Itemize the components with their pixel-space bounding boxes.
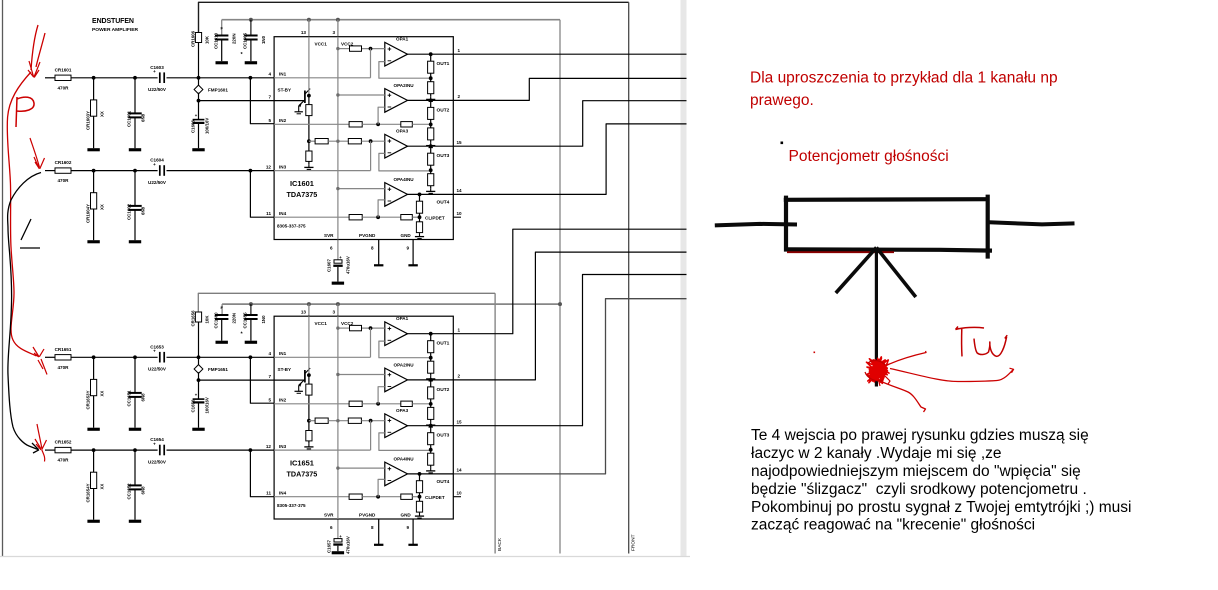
ground [192,428,204,431]
resistor IN2 input [349,122,362,127]
resistor OUT4 lower [419,217,421,222]
resistor bias R1 [308,375,310,384]
resistor OUT3 upper [430,146,432,153]
svg-text:3: 3 [332,30,335,35]
svg-text:7: 7 [268,374,271,379]
svg-text:OUT1: OUT1 [437,341,450,347]
annotation black curve [8,173,41,450]
svg-text:C1656: C1656 [190,399,195,412]
svg-text:220N: 220N [232,313,237,324]
svg-text:IN3: IN3 [279,164,287,169]
wire IN2 row internal [274,403,349,405]
svg-text:Dla uproszczenia to przykład d: Dla uproszczenia to przykład dla 1 kanał… [750,70,1058,87]
op-amp OPA3 (IC1651) [385,414,408,438]
wire OUT1 bottom to connector [453,229,686,334]
wire pin9 GND [412,240,414,266]
svg-text:OUT4: OUT4 [437,200,450,206]
node OPA4 minus [376,495,380,499]
svg-text:CR1602: CR1602 [55,160,72,165]
svg-text:Te 4 wejscia po prawej rysunku: Te 4 wejscia po prawej rysunku gdzies mu… [751,427,1089,444]
ground [129,520,141,523]
svg-text:8305-337-375: 8305-337-375 [277,224,306,229]
svg-text:1: 1 [458,327,461,332]
ground [129,428,141,431]
wire output OPA4INU [408,193,454,195]
svg-text:2: 2 [458,94,461,99]
svg-text:470R: 470R [58,178,70,183]
wire input row 1 (CR1601) [45,77,55,79]
resistor bias OPA1 [350,46,362,51]
svg-text:1: 1 [458,48,461,53]
wire IN3-to-IN4 link [250,171,274,218]
scan left page edge [2,0,4,556]
node OPA1 plus [369,47,373,51]
ground [430,188,432,191]
resistor bias R2 [306,151,312,161]
svg-text:XX: XX [100,111,105,117]
wire FRONT vertical [628,2,630,553]
resistor CR1601 470R [55,75,71,80]
wire OUT1 to connector [453,53,686,55]
node row2-junctions [92,169,96,173]
svg-text:OUT1: OUT1 [437,61,450,67]
svg-text:SVR: SVR [324,513,334,518]
wire pin13 stub bottom [308,304,310,316]
wire pin3 stub [337,20,339,37]
resistor chain B [348,139,361,144]
svg-text:Potencjometr głośności: Potencjometr głośności [789,148,949,165]
potentiometer body left [784,196,788,252]
svg-text:XX: XX [100,204,105,210]
svg-text:15: 15 [457,419,463,424]
wire VCC rail2 bottom [222,303,560,305]
svg-text:+: + [153,162,156,167]
resistor OUT3 upper [430,426,432,433]
svg-text:11: 11 [266,211,271,216]
node OUT3 mid [429,448,433,452]
svg-text:7: 7 [268,94,271,99]
svg-text:SVR: SVR [324,233,334,238]
wire VCC1 rail [308,37,310,96]
resistor bias OPA1 [350,325,362,330]
svg-text:OUT3: OUT3 [437,433,450,439]
wire output OPA3 [408,425,454,427]
svg-text:CR1652: CR1652 [55,440,72,445]
node CLIPDET [418,495,422,499]
resistor CR1603Y XX (shunt) [93,78,95,100]
capacitor C1604 U22/50V (series) [159,165,161,176]
svg-text:łaczyc w 2 kanały .Wydaje mi s: łaczyc w 2 kanały .Wydaje mi się ,ze [751,445,1002,462]
node OPA2 minus [376,402,380,406]
potentiometer body top [784,197,988,202]
svg-text:CC1655: CC1655 [243,312,248,329]
svg-text:OPA1: OPA1 [396,37,409,42]
wire pin13 stub [308,20,310,37]
ground [430,96,432,99]
annotation letter P [16,97,34,127]
svg-text:VCC1: VCC1 [315,321,328,326]
svg-text:PVGND: PVGND [359,233,376,238]
wire VCC2 bias row OPA1 [338,327,350,329]
svg-text:U22/50V: U22/50V [148,180,167,185]
svg-text:CC1652: CC1652 [127,483,132,500]
resistor OUT4 lower [419,497,421,502]
node OUT2 mid [429,402,433,406]
svg-text:2: 2 [458,374,461,379]
node rail2 bottom taps [249,302,253,306]
IC box IC1651 TDA7375 [274,316,453,519]
svg-text:6: 6 [330,525,333,530]
capacitor C1607 470u16V [334,260,342,263]
svg-text:+: + [153,442,156,447]
svg-text:będzie "ślizgacz" czyli srodk: będzie "ślizgacz" czyli srodkowy potencj… [751,481,1087,498]
ground [245,61,257,64]
svg-text:OUT2: OUT2 [437,107,450,113]
svg-text:OPA4INU: OPA4INU [394,177,415,182]
wire IN4 row internal [274,496,349,498]
op-amp OPA2INU (IC1601) [385,89,408,113]
ground [308,164,310,167]
resistor OUT2 upper [430,100,432,107]
svg-text:470R: 470R [58,85,70,90]
node row1-junctions [92,76,96,80]
svg-text:IN3: IN3 [279,444,287,449]
ground [430,422,432,425]
node OUT1 mid [429,76,433,80]
wire OUT4 bottom to connector [453,299,686,474]
svg-text:C1603: C1603 [150,65,164,70]
svg-text:470R: 470R [58,365,70,370]
capacitor CC1601 6N8 (shunt) [134,78,136,114]
resistor IN4 input [349,215,362,220]
IC box IC1601 TDA7375 [274,37,453,240]
ground [245,341,257,344]
ground [87,520,99,523]
svg-text:C1607: C1607 [327,259,332,272]
op-amp OPA4INU (IC1651) [385,462,408,486]
wire OUT2 bottom to connector [453,252,686,380]
svg-text:3: 3 [332,310,335,315]
resistor CR1652 470R [55,447,71,452]
svg-text:IN1: IN1 [279,351,287,356]
wire output OPA4INU [408,473,454,475]
annotation red curve down-right [878,380,926,412]
wire input row 2 (CR1652) [45,449,55,451]
capacitor C1656 100/16V [193,398,205,400]
node OUT1 [429,52,433,56]
svg-text:CR1601: CR1601 [55,67,72,72]
svg-text:9: 9 [407,525,410,530]
wire pin10 CLIPDET stub [453,216,461,218]
resistor CR1654Y XX (shunt) [93,450,95,472]
ground [129,240,141,243]
svg-text:TDA7375: TDA7375 [287,190,318,199]
resistor OUT4 upper [419,474,421,481]
annotation red arrow mid [30,138,45,169]
svg-text:CR1654Y: CR1654Y [86,483,91,502]
node OUT1 mid [429,356,433,360]
wire pin7 row [199,379,275,381]
svg-text:470R: 470R [58,458,70,463]
node OPA2 minus [376,122,380,126]
wire VCC rail2 top [222,19,560,21]
annotation red blob scribble [867,357,890,383]
svg-text:VCC1: VCC1 [315,41,328,46]
svg-text:CC1601: CC1601 [127,110,132,127]
svg-text:OPA2INU: OPA2INU [394,83,415,88]
annotation tiny red dot [814,352,816,354]
svg-text:15: 15 [457,140,463,145]
resistor chain A [315,418,328,423]
svg-text:C1606: C1606 [190,120,195,133]
svg-text:CR1653Y: CR1653Y [86,390,91,409]
wire BACK vertical [494,293,496,553]
node bias chain [307,139,311,143]
svg-text:CLIPDET: CLIPDET [425,495,445,500]
svg-text:10: 10 [457,490,463,495]
svg-text:C1604: C1604 [150,158,164,163]
annotation red curve long-right [890,368,1014,381]
node OUT4 [418,472,422,476]
svg-text:10K: 10K [205,35,210,44]
svg-text:ENDSTUFEN: ENDSTUFEN [92,18,134,25]
svg-text:CC1605: CC1605 [243,32,248,49]
wire [198,93,200,119]
resistor chain A [315,139,328,144]
wire OPA3 bias chain row [309,420,315,422]
svg-text:8: 8 [371,525,374,530]
wire OPA2 plus row [338,374,385,376]
wire output OPA3 [408,145,454,147]
ground [87,428,99,431]
svg-text:prawego.: prawego. [750,92,814,109]
resistor IN4 input [349,494,362,499]
potentiometer body right [986,195,990,259]
wire OUT4 to connector [453,124,686,194]
svg-text:CC1610: CC1610 [214,32,219,49]
svg-text:POWER AMPLIFIER: POWER AMPLIFIER [92,27,138,33]
svg-text:10K: 10K [205,315,210,324]
wire IN1 riser [370,328,372,357]
node OUT2 [429,378,433,382]
wire IN2 row internal [274,123,349,125]
node OUT1 [429,332,433,336]
svg-text:U22/50V: U22/50V [148,460,167,465]
svg-text:14: 14 [457,188,463,193]
ground [430,468,432,471]
wire IN1-to-IN2 link [250,78,274,124]
wire VCC2 bias row OPA1 [338,48,350,50]
svg-text:CC1660: CC1660 [214,312,219,329]
node OPA3 plus [369,419,373,423]
op-amp OPA3 (IC1601) [385,134,408,158]
svg-text:IC1601: IC1601 [290,179,314,188]
svg-text:CC1602: CC1602 [127,203,132,220]
wire output OPA2INU [408,99,454,101]
svg-text:PVGND: PVGND [359,513,376,518]
annotation black tick [20,219,40,248]
wire pin6 SVR stub bottom block [337,519,339,539]
resistor CR1653Y XX (shunt) [93,357,95,379]
resistor OUT3 lower [428,453,434,465]
resistor OUT3 lower [428,174,434,186]
resistor OUT2 lower [428,128,434,140]
scan bottom edge [0,556,690,558]
svg-text:Pokombinuj po prostu sygnał z: Pokombinuj po prostu sygnał z Twojej emt… [751,499,1131,516]
node OPA1 plus [369,326,373,330]
potentiometer body bottom [786,249,993,250]
capacitor C1603 U22/50V (series) [159,72,161,83]
resistor OPA4 feedback [401,494,413,499]
ground [374,264,383,266]
wire OPA4 plus row [338,467,385,469]
svg-text:CR1603Y: CR1603Y [86,111,91,130]
svg-text:OPA2INU: OPA2INU [394,362,415,367]
resistor OPA4 feedback [401,215,413,220]
op-amp OPA2INU (IC1651) [385,368,408,392]
svg-text:IN2: IN2 [279,398,287,403]
svg-text:OUT3: OUT3 [437,153,450,159]
ground [216,61,228,64]
svg-text:CC1651: CC1651 [127,390,132,407]
capacitor CC1651 6N8 (shunt) [134,357,136,393]
svg-text:OPA3: OPA3 [396,129,409,134]
wire VCC2/SVR rail [337,37,339,240]
svg-text:zacząć reagować na "krecenie": zacząć reagować na "krecenie" głośności [751,517,1035,534]
node collector [307,94,311,98]
annotation black arrowhead [32,443,39,453]
potentiometer left lead [715,224,797,226]
svg-text:TDA7375: TDA7375 [287,470,318,479]
resistor OUT1 upper [430,54,432,61]
annotation red arrow 1 [28,61,40,78]
resistor CR1602 470R [55,168,71,173]
svg-text:8305-337-375: 8305-337-375 [277,503,306,508]
svg-text:BACK: BACK [497,537,503,551]
wire VCC1 rail [308,316,310,375]
svg-text:12: 12 [266,164,272,169]
wire IN4 row internal [274,216,349,218]
svg-text:220N: 220N [232,34,237,45]
wire OPA3 bias chain row [309,140,315,142]
wire input row 2 (CR1602) [45,170,55,172]
svg-text:OUT2: OUT2 [437,387,450,393]
capacitor C1653 U22/50V (series) [159,352,161,363]
wire OPA1 feedback hook [379,62,431,79]
potentiometer wiper arrow [836,248,877,294]
test point FMP1651 [194,365,203,374]
svg-text:13: 13 [301,310,307,315]
annotation red curve upper-right [886,351,926,366]
svg-text:CR1651: CR1651 [55,347,72,352]
wire IN3 riser [370,421,372,450]
capacitor C1606 100/16V [193,119,205,121]
wire output OPA1 [408,333,454,335]
svg-text:GND: GND [401,513,412,518]
svg-text:IN2: IN2 [279,118,287,123]
node rail2 taps [249,18,253,22]
ground [87,148,99,151]
annotation red long curve [7,72,36,356]
svg-text:470u16V: 470u16V [346,536,351,554]
svg-text:6N8: 6N8 [141,486,146,495]
ground [87,240,99,243]
capacitor CC1655 1N0 [244,314,257,316]
node OUT3 mid [429,168,433,172]
svg-text:OPA1: OPA1 [396,316,409,321]
wire cap stubs top [221,20,223,36]
resistor IN2 input [349,401,362,406]
svg-text:OUT4: OUT4 [437,479,450,485]
svg-text:C1654: C1654 [150,437,164,442]
node OUT4 [418,193,422,197]
wire rail2 descent [559,20,561,554]
annotation red arrow bottom-2 [35,424,47,462]
capacitor C1657 470u16V [334,539,342,542]
wire [198,372,200,398]
svg-text:4: 4 [268,351,271,356]
annotation small dot [781,142,784,145]
svg-text:CR1604Y: CR1604Y [86,204,91,223]
wire pin7 row [199,100,275,102]
node CLIPDET [418,215,422,219]
wire OPA3 feedback hook [379,153,431,171]
capacitor CC1610 220N [215,35,228,37]
svg-text:C1657: C1657 [327,540,332,553]
ground [129,148,141,151]
svg-text:100/16V: 100/16V [205,397,210,413]
op-amp OPA1 (IC1601) [385,42,408,66]
ground [216,341,228,344]
wire input row 1 (CR1651) [45,356,55,358]
wire IN1 riser [370,49,372,78]
svg-text:GND: GND [401,233,412,238]
svg-text:U22/50V: U22/50V [148,367,167,372]
wire VCC rail1 bottom [198,293,495,312]
svg-text:ST-BY: ST-BY [278,367,292,372]
node OPA4 minus [376,215,380,219]
svg-text:4: 4 [268,72,271,77]
svg-text:FMP1651: FMP1651 [208,367,228,372]
svg-text:+: + [153,349,156,354]
potentiometer red underline [787,251,894,253]
ground [332,282,344,285]
capacitor CC1602 6N8 (shunt) [134,171,136,206]
svg-text:6: 6 [330,245,333,250]
wire pin10 CLIPDET stub [453,496,461,498]
node OUT3 [429,424,433,428]
resistor bias R2 [306,431,312,441]
wire cap stubs bottom [221,304,223,315]
wire OUT2 to connector [453,78,686,100]
capacitor C1654 U22/50V (series) [159,445,161,456]
wire bias column [198,43,200,87]
svg-text:14: 14 [457,468,463,473]
resistor OUT2 lower [428,407,434,419]
annotation red Tu [956,327,1008,357]
svg-text:XX: XX [100,484,105,490]
svg-text:FRONT: FRONT [631,534,637,551]
ground [308,444,310,447]
svg-text:IN1: IN1 [279,72,287,77]
svg-text:5: 5 [268,118,271,123]
svg-text:U22/50V: U22/50V [148,87,167,92]
wire pin3 stub bottom [337,304,339,316]
resistor CR1656 10K [195,312,201,322]
wire VCC rail1 top [199,2,629,32]
wire OPA3 feedback hook [379,433,431,451]
ground [332,551,344,554]
